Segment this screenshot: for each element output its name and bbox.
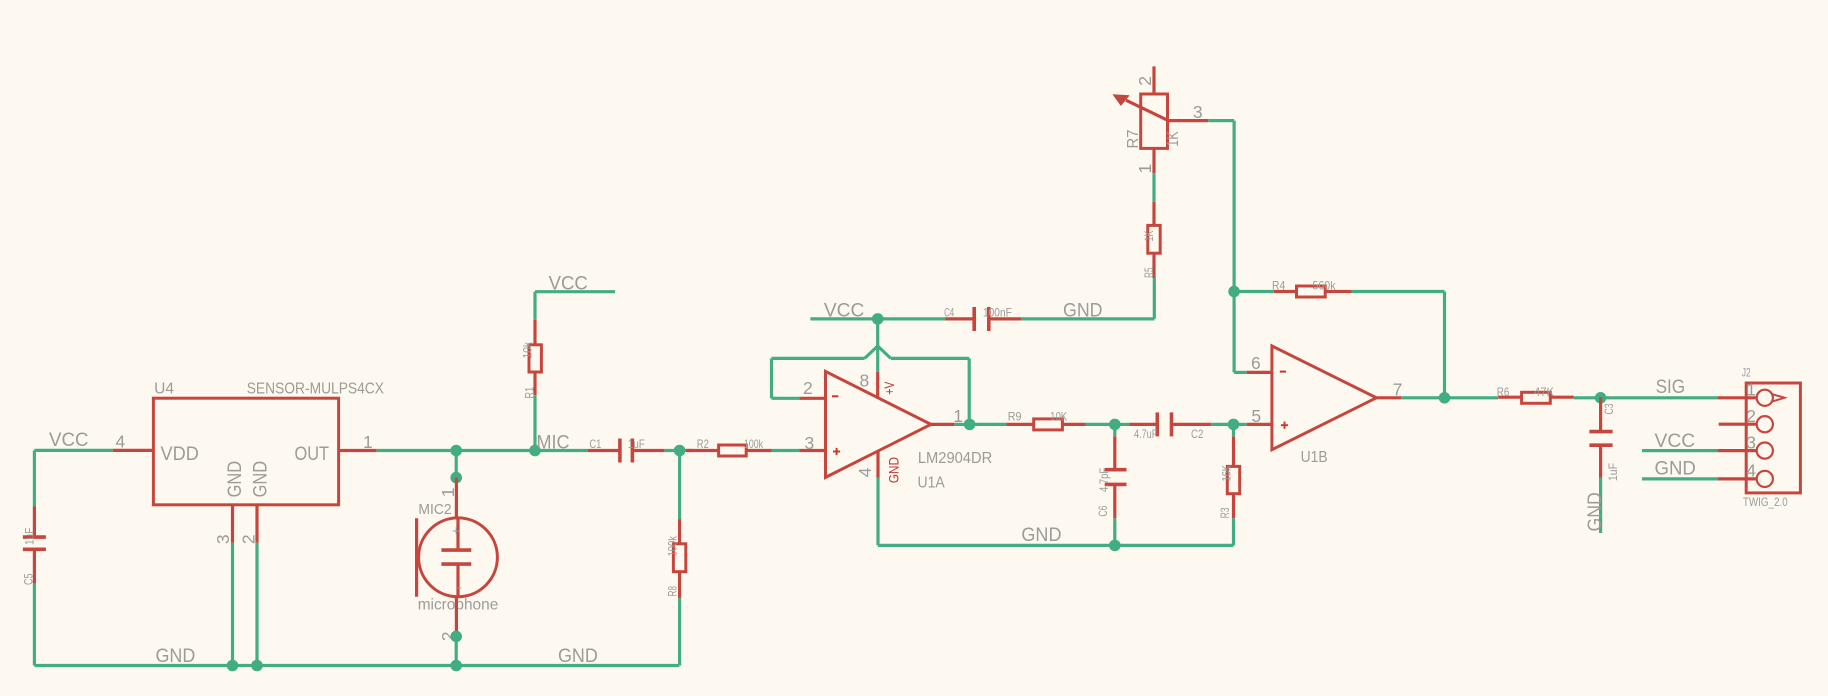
junction C2/R3/pin5	[1228, 419, 1240, 431]
pin 2 stub of R7	[1152, 66, 1155, 94]
svg-text:U1B: U1B	[1301, 449, 1328, 466]
svg-text:R2: R2	[697, 437, 709, 451]
wire C6 to GND wire	[1113, 518, 1116, 545]
IC U4 SENSOR-MULPS4CX body	[153, 398, 338, 505]
svg-text:1: 1	[1135, 164, 1155, 174]
svg-text:SIG: SIG	[1656, 377, 1686, 398]
op-amp U1A triangle	[826, 371, 932, 477]
wire U1A pin4 down	[876, 478, 879, 546]
wire R7 pin3 right	[1208, 119, 1234, 122]
svg-text:R9: R9	[1008, 409, 1022, 423]
junction mic tap	[450, 445, 462, 457]
pin 1 stub OUT	[339, 449, 377, 452]
wire GND mid rail	[878, 544, 1234, 547]
svg-text:1: 1	[438, 488, 458, 498]
svg-text:16K: 16K	[1220, 465, 1234, 481]
wire C4 to GND corner	[1021, 317, 1154, 320]
svg-text:+V: +V	[881, 381, 897, 395]
svg-text:microphone: microphone	[418, 597, 499, 614]
svg-text:R5: R5	[1142, 267, 1156, 278]
junction U1A output	[964, 419, 976, 431]
pin 2 stub of J2	[1719, 423, 1757, 426]
pin 1 stub of J2	[1718, 396, 1757, 399]
pin 4 stub of U1A	[876, 451, 879, 478]
wire wiper vertical to pin6	[1232, 121, 1235, 373]
svg-text:R8: R8	[666, 586, 680, 597]
capacitor C4	[946, 307, 1022, 331]
svg-text:GND: GND	[225, 461, 246, 498]
op-amp U1B triangle	[1272, 346, 1377, 450]
pin 3 stub of U1A	[799, 449, 824, 452]
wire VCC to connector pin 3	[1642, 449, 1718, 452]
svg-text:47K: 47K	[1534, 385, 1554, 399]
wire R7 pin1 to R5	[1152, 173, 1155, 202]
svg-text:1uF: 1uF	[1606, 463, 1620, 481]
svg-text:5: 5	[1251, 406, 1261, 426]
svg-text:3: 3	[805, 433, 815, 453]
svg-text:GND: GND	[1585, 492, 1606, 531]
svg-text:J2: J2	[1742, 366, 1751, 380]
svg-text:2: 2	[239, 534, 259, 544]
wire R4 corner down to output	[1443, 292, 1446, 398]
wire VCC down to C5	[33, 450, 36, 506]
junction mic/GND rail	[450, 660, 462, 672]
svg-text:3: 3	[213, 534, 233, 544]
pin 4 circle of J2	[1757, 471, 1773, 487]
op-amp U1A minus mark	[832, 395, 838, 397]
svg-text:8: 8	[860, 371, 870, 391]
svg-text:U4: U4	[154, 381, 174, 398]
wire pin7 to junction	[1401, 396, 1444, 399]
pin 2 stub of MIC2	[455, 596, 458, 636]
resistor R2	[686, 445, 772, 456]
resistor R9	[1006, 419, 1085, 430]
wire VCC stub (R1)	[535, 290, 615, 293]
junction U1B output/R4	[1439, 392, 1451, 404]
wire bottom GND rail	[34, 664, 679, 667]
svg-text:C3: C3	[1602, 403, 1616, 414]
svg-text:MIC2: MIC2	[418, 502, 451, 518]
svg-text:1: 1	[363, 432, 373, 452]
svg-text:4.7pF: 4.7pF	[1097, 468, 1111, 492]
wire tent left diagonal	[865, 346, 878, 358]
wire U4 pin 2 to GND rail	[255, 543, 258, 666]
svg-text:10K: 10K	[1050, 409, 1067, 423]
wire VCC down to R1	[533, 292, 536, 320]
wire U4 pin 3 to GND rail	[231, 543, 234, 666]
svg-text:VCC: VCC	[49, 430, 89, 451]
junction VCC/pin8	[872, 313, 884, 325]
svg-text:-: -	[457, 580, 462, 596]
wire loop right vertical to output	[968, 358, 971, 424]
junction C6/GND	[1109, 540, 1121, 552]
pin 1 circle of J2	[1757, 390, 1785, 406]
svg-text:C1: C1	[589, 437, 601, 451]
svg-text:GND: GND	[251, 461, 272, 498]
wire pin5 junction to stub	[1234, 423, 1247, 426]
svg-text:GND: GND	[1655, 459, 1696, 480]
wire output to R9	[970, 423, 1007, 426]
capacitor C1	[588, 439, 665, 463]
pin 8 stub of U1A	[876, 372, 879, 398]
pin 2 stub of U1A	[799, 397, 824, 400]
pin 3 stub	[231, 505, 234, 543]
svg-text:C4: C4	[944, 306, 954, 320]
pin 7 stub of U1B	[1376, 396, 1401, 399]
wire R6 to SIG junction	[1574, 396, 1601, 399]
pin 1 stub of U1A	[931, 423, 954, 426]
svg-text:SENSOR-MULPS4CX: SENSOR-MULPS4CX	[247, 381, 385, 398]
resistor R3	[1227, 424, 1239, 518]
pin 2 stub	[255, 505, 258, 543]
wire output to R6	[1445, 396, 1499, 399]
wire OUT to C1	[377, 449, 588, 452]
svg-text:C2: C2	[1191, 427, 1204, 441]
wire R4 to corner	[1352, 290, 1445, 293]
svg-text:TWIG_2.0: TWIG_2.0	[1743, 495, 1788, 509]
svg-text:3: 3	[1193, 102, 1203, 122]
svg-text:R3: R3	[1218, 507, 1232, 518]
svg-text:U1A: U1A	[918, 475, 946, 492]
wire to pin 6 stub	[1234, 371, 1247, 374]
svg-text:7: 7	[1393, 379, 1403, 399]
wire C1 to R2 junction	[664, 449, 693, 452]
junction mic pin2	[450, 631, 462, 643]
op-amp U1B minus mark	[1280, 371, 1286, 373]
wire loop top right	[891, 357, 969, 360]
capacitor C2	[1115, 412, 1211, 436]
pin 3 stub of J2	[1718, 449, 1757, 452]
svg-text:1K: 1K	[1165, 131, 1182, 147]
svg-text:1: 1	[1746, 380, 1756, 400]
pin 2 circle of J2	[1757, 416, 1773, 432]
svg-text:4: 4	[855, 467, 875, 477]
wire mic pin1 link	[455, 451, 458, 478]
svg-text:GND: GND	[156, 646, 196, 667]
svg-text:OUT: OUT	[295, 444, 330, 465]
wire C3 to GND stub	[1599, 478, 1602, 533]
pin 5 stub of U1B	[1247, 423, 1272, 426]
svg-text:GND: GND	[558, 646, 598, 667]
wire R1 to MIC	[533, 395, 536, 450]
svg-text:+: +	[452, 524, 460, 540]
wire loop left vertical	[770, 358, 773, 398]
svg-text:LM2904DR: LM2904DR	[918, 450, 992, 467]
svg-text:3: 3	[1746, 432, 1756, 452]
junction R1/MIC	[529, 445, 541, 457]
svg-text:1uF: 1uF	[628, 437, 645, 451]
wire SIG to connector	[1601, 396, 1718, 399]
svg-text:100k: 100k	[744, 437, 764, 451]
svg-text:4: 4	[1746, 461, 1756, 481]
wire mic pin2 to GND rail	[455, 636, 458, 665]
microphone MIC2 symbol	[417, 518, 498, 597]
svg-text:VCC: VCC	[1655, 431, 1696, 452]
junction C1/R2/R8	[674, 445, 686, 457]
svg-text:10k: 10k	[521, 341, 535, 358]
svg-text:GND: GND	[885, 457, 901, 483]
svg-text:MIC: MIC	[537, 433, 570, 454]
junction pin2/GND rail	[251, 660, 263, 672]
svg-text:2: 2	[1135, 76, 1155, 86]
resistor R8	[673, 519, 685, 598]
pin 4 stub of J2	[1718, 477, 1757, 480]
capacitor C3	[1589, 397, 1612, 478]
junction pin3/GND rail	[227, 660, 239, 672]
svg-text:100k: 100k	[665, 535, 679, 556]
pin 3 stub of R7	[1168, 119, 1208, 122]
junction mic pin1	[450, 472, 462, 484]
connector J2 body	[1746, 383, 1800, 493]
pin 6 stub of U1B	[1247, 371, 1272, 374]
wire GND to connector pin 4	[1642, 477, 1718, 480]
wire R8 to GND rail	[678, 598, 681, 665]
wire tent right diagonal	[878, 346, 891, 358]
op-amp U1A plus mark	[833, 448, 840, 455]
svg-text:R4: R4	[1272, 278, 1285, 292]
wire GND corner up to R5	[1153, 278, 1156, 319]
wire C2 to pin5 junction	[1211, 423, 1233, 426]
svg-text:560k: 560k	[1313, 278, 1337, 292]
pin 3 circle of J2	[1757, 443, 1773, 459]
capacitor C6	[1105, 436, 1127, 518]
pin 4 stub of U4	[113, 449, 153, 452]
junction R4 tap	[1228, 286, 1240, 298]
wire VCC rail	[810, 317, 945, 320]
resistor R1	[529, 320, 541, 395]
pin 1 stub of R7	[1152, 148, 1155, 173]
svg-text:C6: C6	[1096, 505, 1110, 516]
wire junction down to R8	[678, 451, 681, 520]
svg-text:4: 4	[116, 432, 126, 452]
op-amp U1B plus mark	[1281, 422, 1288, 429]
svg-text:GND: GND	[1021, 525, 1061, 546]
wire R3 to GND corner	[1232, 518, 1235, 545]
junction R6/C3/SIG	[1595, 392, 1607, 404]
wire loop top left	[772, 357, 865, 360]
svg-text:1K: 1K	[1142, 231, 1156, 242]
wire R9 to junction	[1086, 423, 1115, 426]
wire R4 tap to resistor	[1234, 290, 1274, 293]
wire C5 to GND rail	[33, 583, 36, 666]
svg-text:1uF: 1uF	[23, 528, 37, 545]
pin 1 stub of MIC2	[455, 478, 458, 519]
svg-text:100nF: 100nF	[983, 306, 1012, 320]
potentiometer R7 body	[1112, 94, 1167, 148]
wire junction down to C6	[1113, 424, 1116, 436]
svg-text:2: 2	[1746, 406, 1756, 426]
resistor R5	[1148, 202, 1160, 278]
capacitor C5	[23, 507, 46, 584]
svg-text:2: 2	[803, 378, 813, 398]
svg-text:6: 6	[1251, 353, 1261, 373]
junction R9/C2/C6	[1109, 419, 1121, 431]
resistor R6	[1498, 392, 1574, 403]
svg-text:4.7uF: 4.7uF	[1134, 427, 1157, 441]
wire VCC down to pin 8	[876, 319, 879, 372]
wire VCC to U4 pin 4	[34, 449, 112, 452]
svg-text:VDD: VDD	[161, 444, 199, 465]
wire pin2 to loop	[772, 397, 800, 400]
wire pin1 to junction	[954, 423, 969, 426]
wire R2 to U1A pin 3	[772, 449, 800, 452]
resistor R4	[1274, 286, 1352, 297]
svg-text:R7: R7	[1125, 129, 1142, 148]
svg-text:R6: R6	[1497, 385, 1510, 399]
